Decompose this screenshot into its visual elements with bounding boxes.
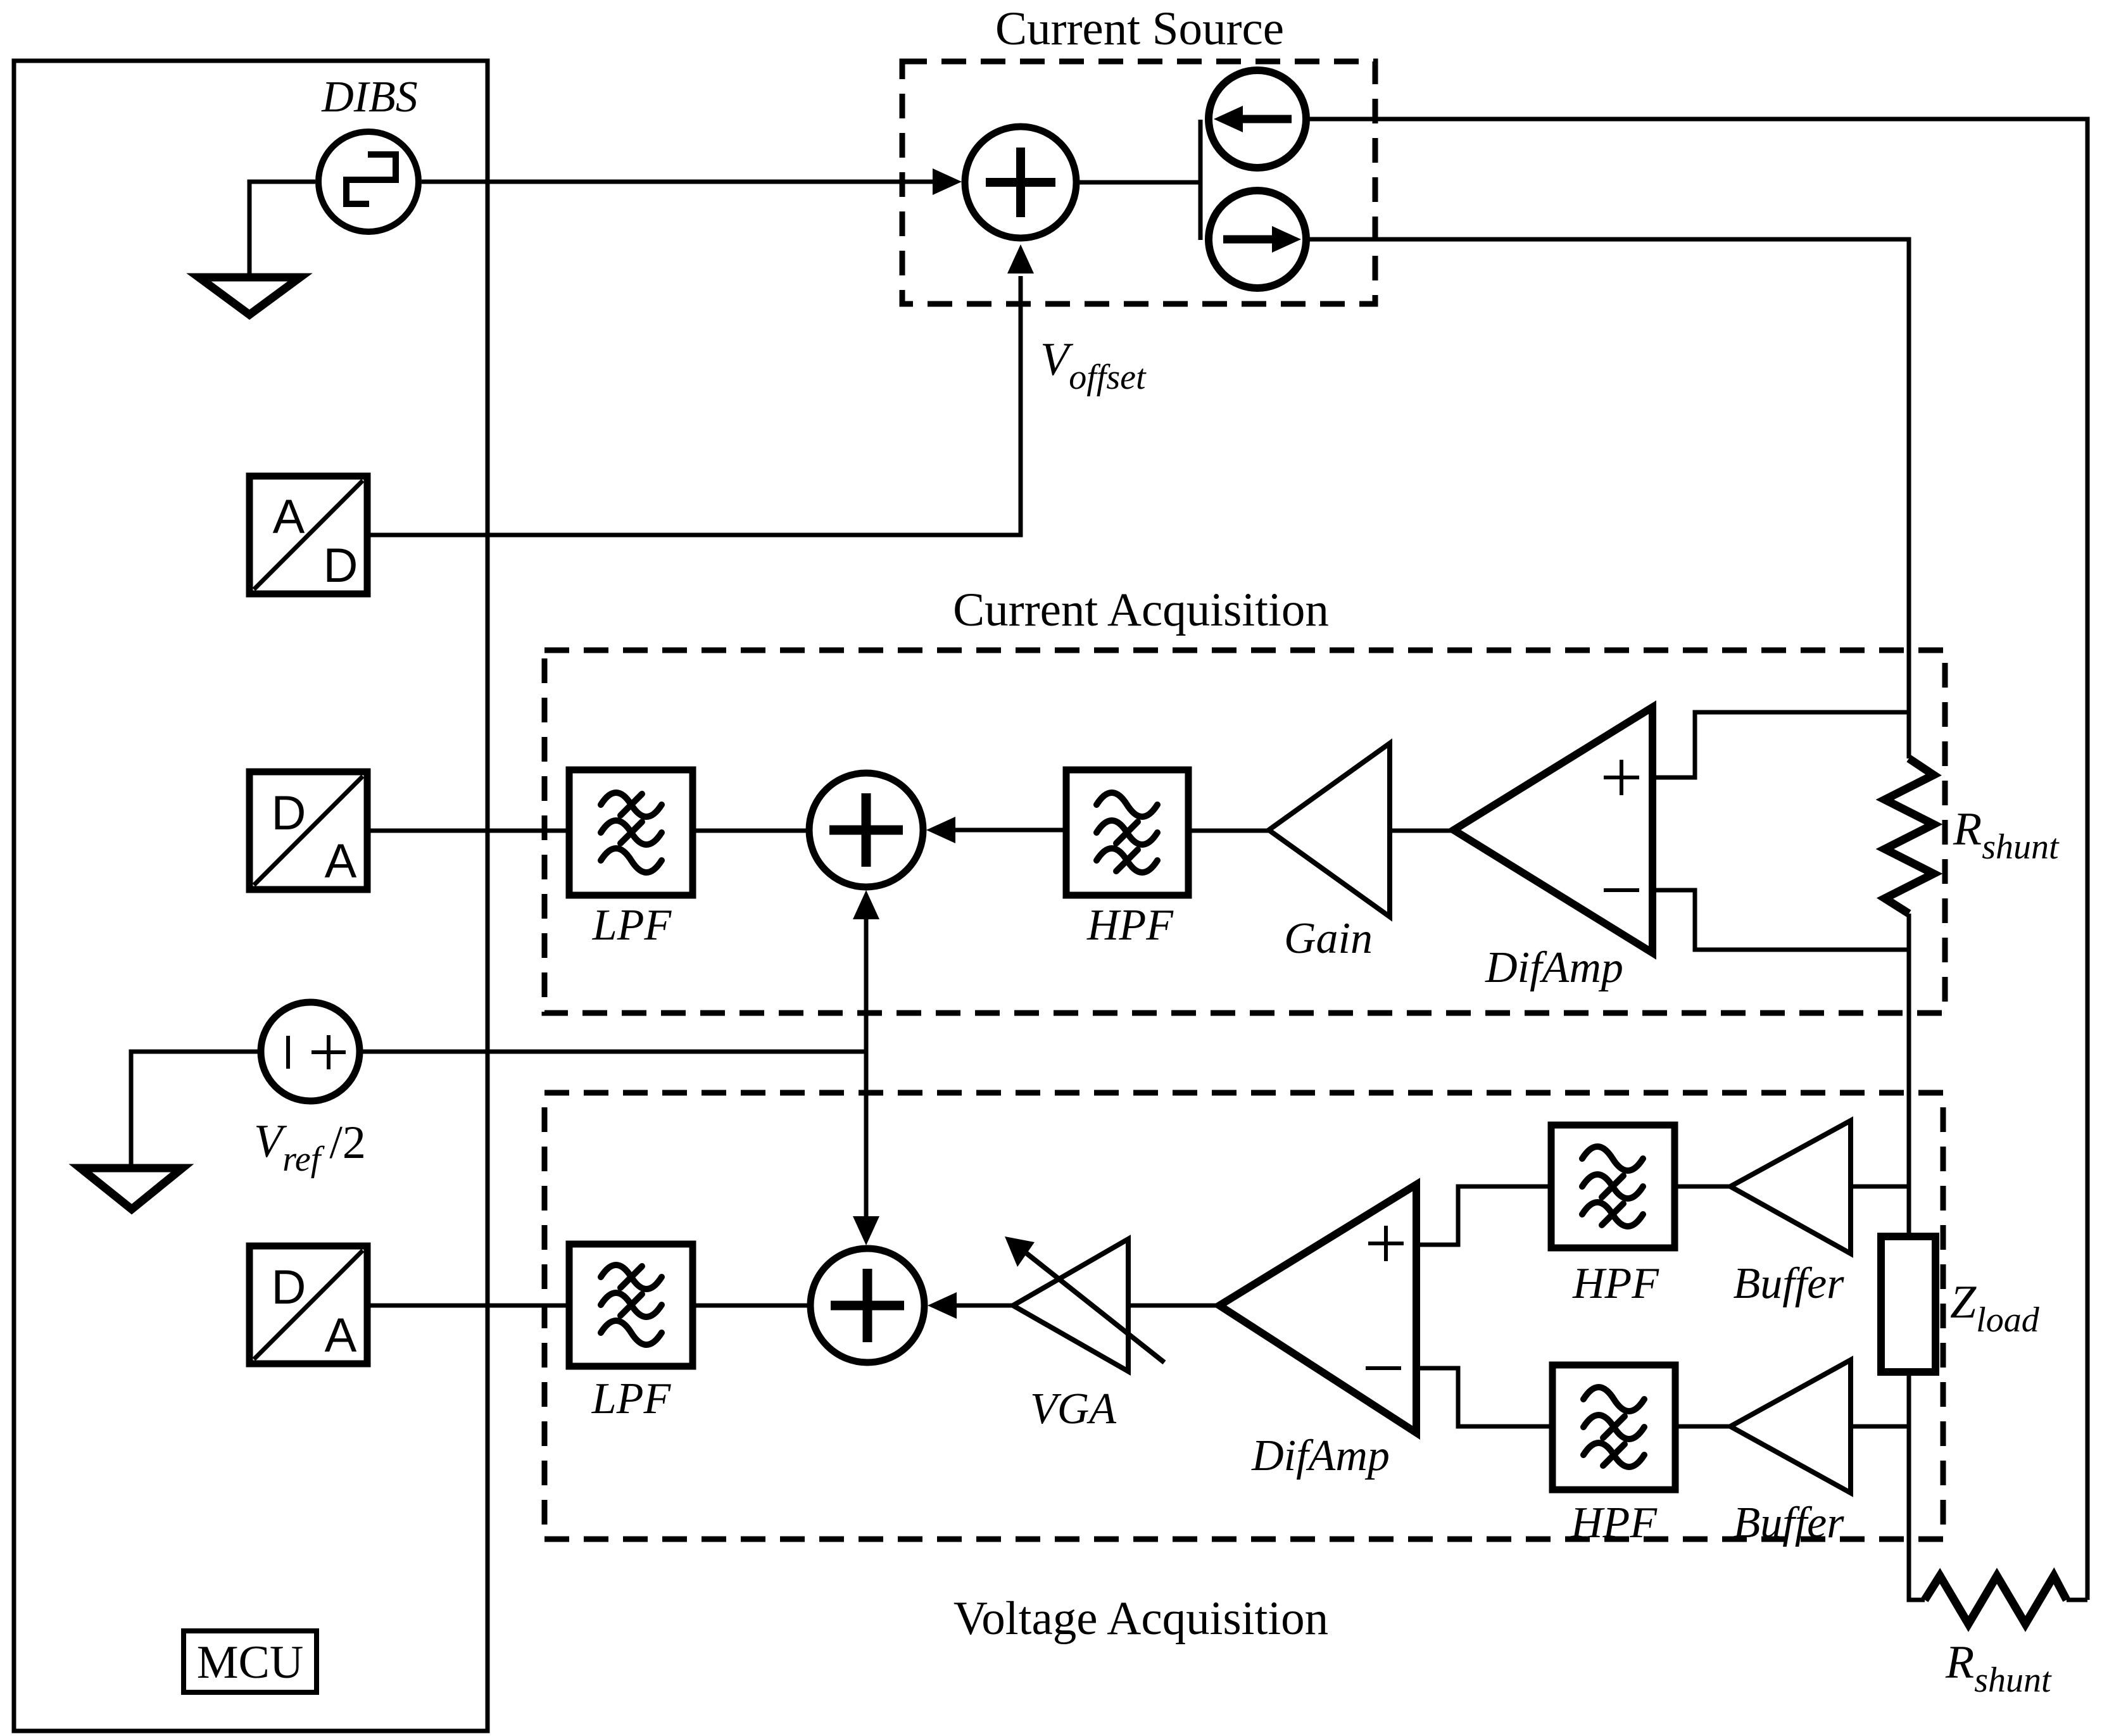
Current Source dashed box <box>902 61 1375 304</box>
wire summer to current sources <box>1076 120 1200 240</box>
Gain label <box>1284 914 1373 963</box>
DifAmp1 - input stub to Rshunt bottom <box>1652 890 1909 950</box>
svg-text:A: A <box>325 834 357 888</box>
Buffer1 label <box>1734 1259 1845 1308</box>
MCU label <box>184 1631 317 1692</box>
Gain amplifier <box>1269 743 1390 917</box>
wire HPF3 to Buffer2 <box>1675 1425 1730 1429</box>
svg-text:LPF: LPF <box>592 901 672 950</box>
current source I2 (source, arrow right) <box>1209 191 1306 288</box>
wire DifAmp2 to VGA <box>1128 1304 1219 1308</box>
arrowhead up into S1 <box>853 890 879 919</box>
svg-text:MCU: MCU <box>197 1637 304 1689</box>
svg-text:Buffer: Buffer <box>1734 1499 1845 1547</box>
DifAmp1 label <box>1485 943 1623 992</box>
ground (DIBS) <box>199 277 300 315</box>
wire Buffer1 to Zload node <box>1851 1185 1909 1189</box>
LPF2 label <box>591 1374 672 1423</box>
svg-text:D: D <box>324 539 358 593</box>
svg-text:Buffer: Buffer <box>1734 1259 1845 1308</box>
LPF2 <box>569 1244 693 1366</box>
Current Source title <box>995 3 1284 55</box>
HPF3 label <box>1570 1499 1658 1547</box>
Zload <box>1881 1236 1935 1372</box>
arrowhead Voffset into summer <box>1007 244 1034 274</box>
svg-text:D: D <box>272 1261 306 1314</box>
wire I2 output to Rshunt rail <box>1306 239 1909 758</box>
wire Vref left to ground <box>131 1052 261 1168</box>
wire DIBS output to summer <box>422 180 933 184</box>
Zload label <box>1950 1276 2040 1340</box>
svg-text:Voltage Acquisition: Voltage Acquisition <box>953 1592 1328 1645</box>
vertical wire between summers <box>864 916 869 1216</box>
DifAmp1 <box>1454 707 1652 953</box>
wire Rshunt to Zload <box>1907 914 1911 1236</box>
DifAmp2 + stub to HPF2 <box>1416 1186 1551 1245</box>
wire A/D to Voffset arrow <box>367 276 1021 535</box>
VGA amplifier <box>1005 1236 1164 1371</box>
D/A converter 2 <box>249 1246 367 1364</box>
wire HPF1 to S1 <box>955 828 1066 833</box>
LPF1 label <box>592 901 672 950</box>
Vref/2 label <box>254 1116 366 1179</box>
wire Gain to HPF1 <box>1188 829 1269 833</box>
DifAmp1 + input stub to Rshunt top <box>1652 712 1909 777</box>
wire VGA to S2 <box>957 1304 1013 1308</box>
svg-text:D: D <box>272 786 306 840</box>
Voltage Acquisition dashed box <box>544 1093 1943 1539</box>
wire D/A1 to LPF1 <box>367 829 569 833</box>
resistor Rshunt (bottom) <box>1925 1576 2067 1624</box>
svg-text:VGA: VGA <box>1030 1385 1116 1433</box>
svg-text:LPF: LPF <box>591 1374 672 1423</box>
svg-text:HPF: HPF <box>1570 1499 1658 1547</box>
Current Acquisition title <box>953 584 1329 636</box>
HPF2 <box>1551 1125 1675 1248</box>
Rshunt (top) label <box>1953 803 2060 867</box>
svg-text:A: A <box>325 1309 357 1362</box>
DIBS label <box>321 73 418 122</box>
wire HPF2 to Buffer1 <box>1675 1185 1730 1189</box>
svg-text:A: A <box>273 490 305 544</box>
wire Vref to summers <box>360 1050 866 1054</box>
MCU enclosure box <box>14 61 488 1731</box>
D/A converter 1 <box>249 772 367 890</box>
wire DIBS left to ground <box>249 182 315 277</box>
HPF1 <box>1066 770 1188 895</box>
DifAmp2 label <box>1251 1431 1390 1480</box>
ground (Vref) <box>80 1168 182 1209</box>
wire bottom Rshunt to right rail <box>2067 1598 2087 1602</box>
svg-text:Current Source: Current Source <box>995 3 1284 55</box>
svg-text:HPF: HPF <box>1572 1259 1659 1308</box>
Buffer2 <box>1730 1360 1851 1493</box>
svg-text:DifAmp: DifAmp <box>1485 943 1623 992</box>
svg-text:DIBS: DIBS <box>321 73 418 122</box>
summer S2 (voltage acquisition) <box>810 1249 924 1362</box>
Buffer1 <box>1730 1121 1851 1254</box>
current source I1 (sink, arrow left) <box>1209 70 1306 168</box>
wire D/A2 to LPF2 <box>367 1304 569 1308</box>
arrowhead down into S2 <box>853 1216 879 1245</box>
LPF1 <box>569 770 693 895</box>
svg-text:DifAmp: DifAmp <box>1251 1431 1390 1480</box>
svg-text:Current Acquisition: Current Acquisition <box>953 584 1329 636</box>
Buffer2 label <box>1734 1499 1845 1547</box>
DifAmp2 <box>1219 1185 1416 1433</box>
HPF2 label <box>1572 1259 1659 1308</box>
resistor Rshunt (top) <box>1885 758 1934 914</box>
wire Buffer2 to Zload node <box>1851 1425 1909 1429</box>
VGA label <box>1030 1385 1116 1433</box>
DifAmp2 - stub to HPF3 <box>1416 1368 1552 1426</box>
DIBS source circle <box>318 132 419 232</box>
arrowhead into S1 from HPF1 <box>926 817 955 843</box>
HPF1 label <box>1086 901 1174 950</box>
wire LPF1 to summer S1 <box>693 829 809 833</box>
A/D converter <box>249 476 367 594</box>
Rshunt (bottom) label <box>1945 1637 2052 1700</box>
Vref/2 source <box>261 1002 360 1101</box>
Current Acquisition dashed box <box>544 650 1945 1013</box>
arrowhead into summer U1 <box>933 168 962 195</box>
svg-text:Gain: Gain <box>1284 914 1373 963</box>
Voltage Acquisition title <box>953 1592 1328 1645</box>
wire LPF2 to summer S2 <box>693 1304 810 1308</box>
summer U1 (current source) <box>965 127 1076 238</box>
wire Zload to bottom Rshunt <box>1909 1372 1925 1600</box>
svg-text:HPF: HPF <box>1086 901 1174 950</box>
HPF3 <box>1552 1365 1675 1490</box>
wire I1 output to right rail <box>1306 119 2087 1600</box>
arrowhead into S2 from VGA <box>928 1292 957 1319</box>
wire DifAmp1 to Gain <box>1390 829 1454 833</box>
Voffset label <box>1040 334 1147 397</box>
summer S1 (current acquisition) <box>809 773 923 887</box>
